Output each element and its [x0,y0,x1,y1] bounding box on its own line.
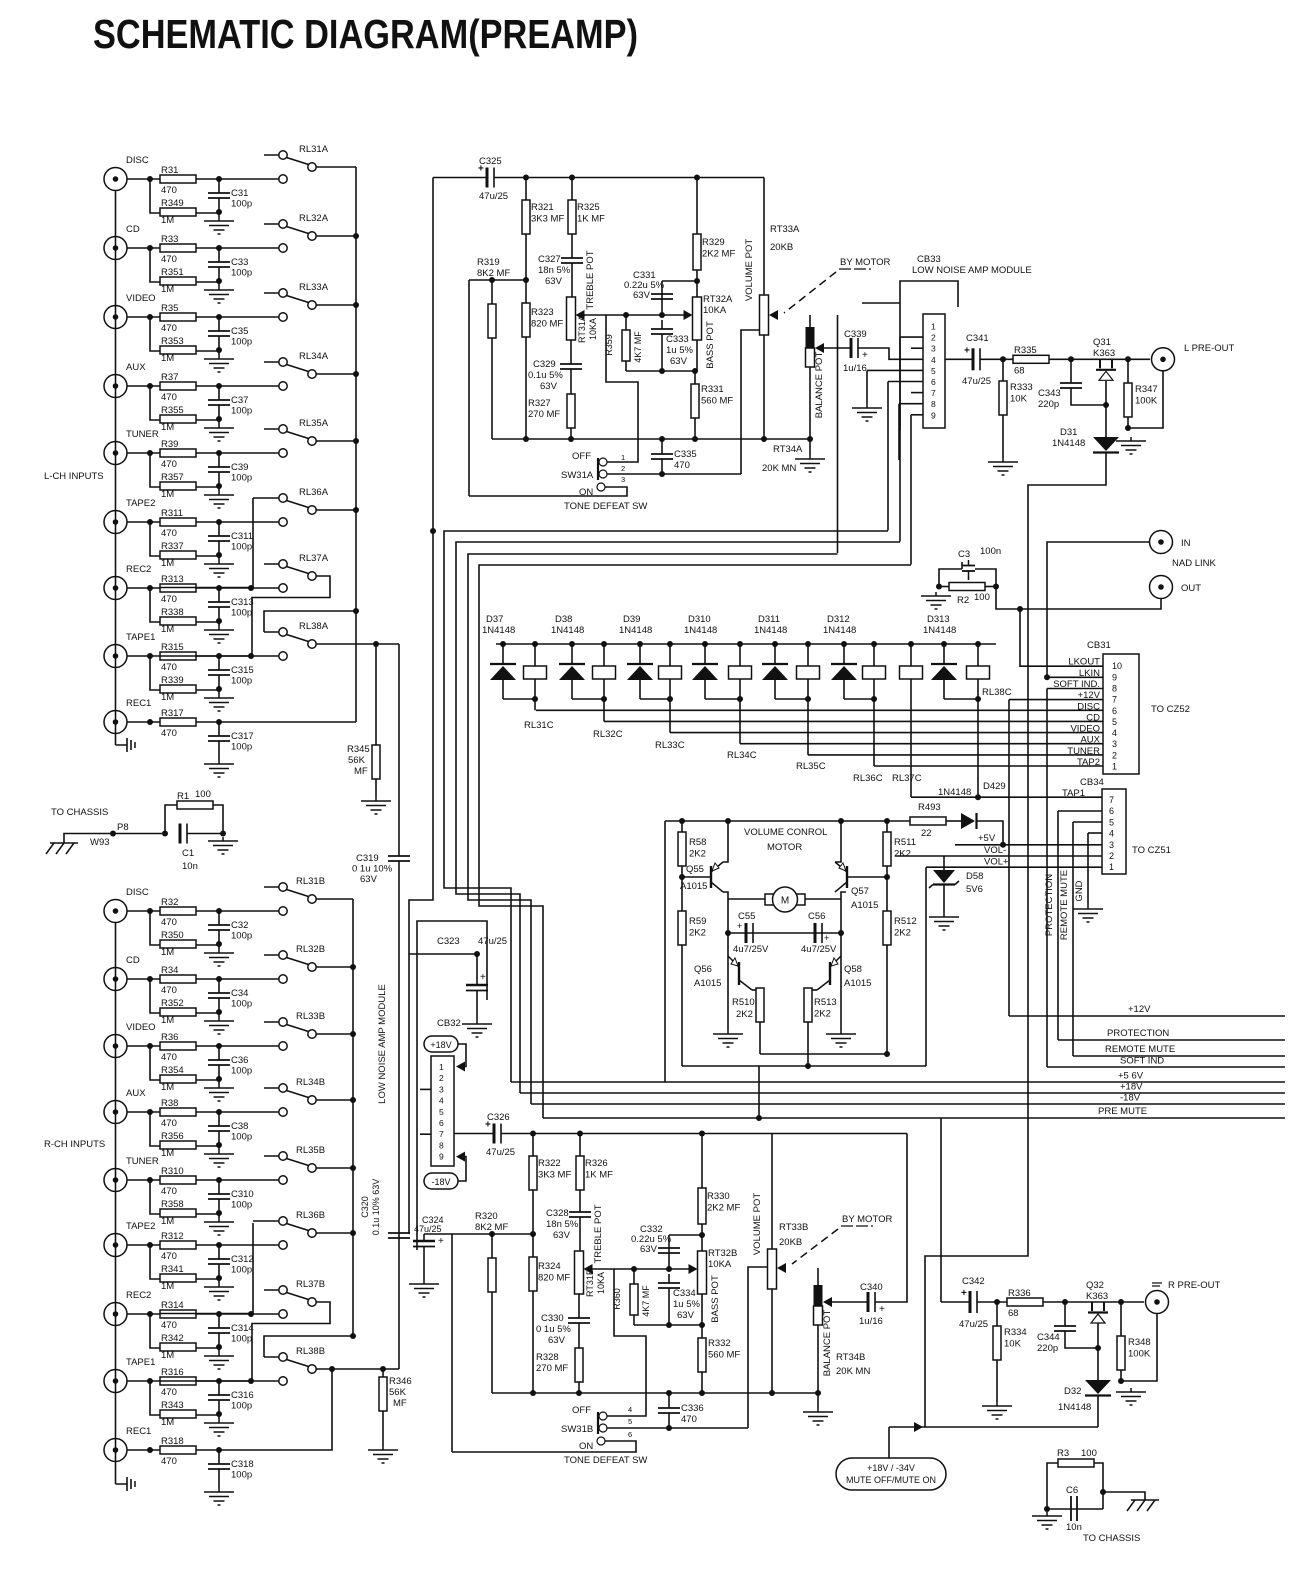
junction RL36B NC tee [248,1311,254,1317]
wire R321 to node [525,234,527,280]
wire R355 out [196,419,219,421]
junction R2 left [936,584,942,590]
open contact VIDEO relay contact [279,313,287,321]
bus +12V [1009,1015,1285,1017]
wire relay out y167 [316,166,356,168]
svg-text:RL35B: RL35B [296,1145,325,1156]
wire balance top [809,315,811,327]
wire Q56 collector [752,989,760,991]
junction DISC [147,176,153,182]
open contact TAPE2 relay contact [279,1241,287,1249]
wire C1 to gnd node [187,833,223,835]
wire C335 to SW row [661,459,663,474]
svg-text:R327: R327 [528,398,551,409]
svg-text:2: 2 [621,464,625,473]
junction C32 top [216,908,222,914]
wire coil2 top [603,644,605,666]
open contact TUNER relay contact [279,449,287,457]
wire C335 drop [661,439,663,454]
wire REMOTE MUTE down [1072,822,1074,1056]
svg-text:VOLUME CONROL: VOLUME CONROL [744,827,827,838]
resistor R350 [160,930,196,948]
wire R333 drop [1002,359,1004,381]
svg-text:R312: R312 [161,1231,184,1242]
svg-text:R313: R313 [161,574,184,585]
wire R37 out [196,385,279,387]
svg-text:68: 68 [1014,366,1025,377]
svg-text:C334: C334 [673,1288,696,1299]
wire R332 bottom [701,1372,703,1393]
wire R320 bottom [491,1292,493,1393]
wire R347 top [1127,359,1129,383]
capacitor C39 [208,467,230,472]
wire balance to C339 [824,347,851,349]
svg-text:68: 68 [1008,1308,1019,1319]
wire C323 to gnd [476,990,478,1020]
svg-text:2: 2 [439,1073,444,1083]
svg-text:47u/25: 47u/25 [962,376,991,387]
wire balance bottom [809,367,811,439]
resistor R511 [883,832,916,866]
capacitor C333 [651,329,673,334]
wire coil7 bottom [910,679,912,699]
junction C314 mid [216,1344,222,1350]
RCA jack TAPE1 input jack L [104,645,127,668]
wire RL38C drop [977,699,979,797]
wire relay B out y1034 [316,1033,353,1035]
svg-text:R335: R335 [1014,345,1037,356]
ground under C311 [204,560,234,577]
ground under C310 [204,1218,234,1235]
wire relay out y510 [316,509,356,511]
svg-text:TUNER: TUNER [126,429,159,440]
wire pair bottom x944 [944,698,978,700]
wire to C342 [941,1301,970,1303]
svg-text:5: 5 [1109,817,1114,827]
relay switch RL38A [264,621,329,648]
relay switch RL34B [264,1077,325,1104]
junction C313 top [216,585,222,591]
potentiometer RT31B [575,1251,593,1294]
svg-text:100p: 100p [231,268,252,279]
svg-text:RT33A: RT33A [770,224,800,235]
open contact AUX relay contact [279,1108,287,1116]
ground under R1/C1 [208,837,238,854]
junction REC2 [147,585,153,591]
wire balance B bottom [817,1325,819,1393]
svg-text:SW31B: SW31B [561,1424,593,1435]
wire VOL+ down [925,867,927,1066]
svg-text:20KB: 20KB [770,242,793,253]
svg-text:L-CH INPUTS: L-CH INPUTS [44,471,104,482]
junction rail B x533 [530,1390,536,1396]
wire TUNER jack to R [127,452,160,454]
svg-text:OFF: OFF [572,1405,591,1416]
svg-text:+12V: +12V [1128,1004,1151,1015]
junction CD [147,245,153,251]
junction C1 right [220,831,226,837]
wire SW31A mid [607,473,741,475]
wire R326 drop [579,1134,581,1157]
svg-text:100K: 100K [1135,396,1158,407]
wire R319 drop [491,280,493,304]
capacitor C331 [651,294,673,299]
svg-text:100p: 100p [231,1132,252,1143]
svg-text:4u7/25V: 4u7/25V [733,944,769,955]
open contact AUX relay contact [279,382,287,390]
svg-text:A1015: A1015 [844,978,871,989]
svg-text:100p: 100p [231,406,252,417]
svg-text:+: + [961,1288,967,1299]
junction REC1 R riser [329,1366,335,1372]
svg-text:Q57: Q57 [851,886,869,897]
wire to R352 [150,979,160,1013]
junction wiper R360 [631,1266,637,1272]
resistor R345 [372,745,380,779]
wire Q57 base [847,876,887,878]
wire Q58 collector [808,989,817,991]
svg-text:3K3 MF: 3K3 MF [531,214,564,225]
svg-text:RL38B: RL38B [296,1346,325,1357]
junction wiper R359 [623,312,629,318]
wire RL38A NC to bus [264,611,356,632]
capacitor C315 [208,670,230,675]
wire C333 down [661,320,663,329]
RCA jack REC2 input jack L [104,577,127,600]
wire to R339 [150,656,160,690]
resistor R58 [678,832,706,866]
junction node R348 [1118,1299,1124,1305]
svg-text:2: 2 [1109,851,1114,861]
svg-text:ON: ON [579,1441,593,1452]
wire C311 top [218,522,220,536]
resistor R319 [488,304,496,338]
wire CB33 pin6 [888,381,923,383]
capacitor C323 [466,972,488,991]
svg-text:R353: R353 [161,336,184,347]
wire C316 to ground [218,1400,220,1419]
dashed line by motor A [784,272,836,313]
svg-text:MOTOR: MOTOR [767,842,802,853]
svg-text:1M: 1M [161,353,174,364]
wire CB33 pin6 bus [887,382,889,531]
svg-text:TAPE1: TAPE1 [126,1357,155,1368]
wire to R338 [150,588,160,622]
wire C3 right [975,569,996,587]
svg-text:6: 6 [1112,706,1117,716]
svg-text:8: 8 [931,399,936,409]
svg-text:R356: R356 [161,1131,184,1142]
resistor R323 [522,303,563,337]
resistor R355 [160,405,196,423]
junction node R333 [1000,356,1006,362]
wire R323 bottom [525,337,527,439]
svg-text:RT33B: RT33B [779,1222,808,1233]
wire R339 out [196,689,219,691]
svg-text:470: 470 [681,1414,697,1425]
potentiometer RT33A [760,295,769,335]
svg-text:R510: R510 [732,997,755,1008]
svg-text:R493: R493 [918,802,941,813]
relay switch RL31A [264,144,329,171]
svg-text:100p: 100p [231,931,252,942]
wire R327 bottom [570,428,572,439]
svg-text:C330: C330 [541,1313,564,1324]
svg-text:A1015: A1015 [851,900,878,911]
svg-text:47u/25: 47u/25 [479,191,508,202]
mute oval [836,1458,946,1490]
wire R325 drop [571,178,573,201]
wire C36 top [218,1046,220,1060]
resistor R356 [160,1131,196,1149]
svg-text:AUX: AUX [126,1088,146,1099]
wire +12V pin [1009,699,1103,701]
junction Q57 base node [884,874,890,880]
junction C35 top [216,314,222,320]
wire R346 column [382,1369,384,1377]
junction C314 top [216,1311,222,1317]
connector CB31 [1103,654,1139,774]
junction +5V node [1000,842,1006,848]
svg-text:C312: C312 [231,1254,254,1265]
svg-text:C317: C317 [231,731,254,742]
junction C315 mid [216,686,222,692]
svg-text:470: 470 [161,1320,177,1331]
relay switch RL37B [264,1279,325,1306]
resistor R33 [160,234,196,265]
svg-text:VOLUME POT: VOLUME POT [744,239,755,301]
svg-text:R PRE-OUT: R PRE-OUT [1168,1280,1220,1291]
svg-text:R349: R349 [161,198,184,209]
ground under C38 [204,1150,234,1167]
junction rail A x526 [523,436,529,442]
wire R334 to gnd [996,1360,998,1402]
wire C6 bottom row [1047,1508,1103,1510]
svg-text:R31: R31 [161,165,178,176]
relay switch RL35A [264,418,329,445]
svg-text:R1: R1 [177,791,189,802]
wire R1 loop right [213,805,223,834]
svg-text:R341: R341 [161,1264,184,1275]
wire rail B ext [772,1133,907,1135]
svg-text:100p: 100p [231,1334,252,1345]
wire R333 to gnd [1002,415,1004,458]
svg-text:470: 470 [161,323,177,334]
svg-text:R33: R33 [161,234,178,245]
wire R2 left [939,586,949,588]
wire top rail A right [494,177,764,179]
wire TAP1 line [911,796,1102,798]
svg-text:470: 470 [161,1456,177,1467]
capacitor C1 [180,824,187,844]
wire Q57c to caprow [840,899,842,933]
svg-text:1u/16: 1u/16 [843,363,867,374]
wire C330 to R328 [578,1323,580,1348]
wire TAPE1 jack to R [127,655,160,657]
svg-text:C36: C36 [231,1055,248,1066]
capacitor C316 [208,1395,230,1400]
wire C342 to R336 [977,1301,1007,1303]
wire C344 to D32 node [1065,1331,1098,1348]
junction C334 bottom [666,1322,672,1328]
wire relay B out y1100 [316,1099,353,1101]
svg-text:R322: R322 [538,1158,561,1169]
capacitor C320 [388,1233,410,1238]
junction node B treble top [530,1231,536,1237]
svg-text:1M: 1M [161,947,174,958]
resistor R343 [160,1400,196,1418]
wire coil5 top [807,644,809,666]
ground under C324 [409,1280,439,1297]
resistor R342 [160,1333,196,1351]
svg-text:L PRE-OUT: L PRE-OUT [1184,343,1235,354]
svg-text:Q58: Q58 [844,964,862,975]
svg-text:7: 7 [1109,795,1114,805]
RCA jack R PRE-OUT [1146,1291,1169,1314]
svg-text:VOL-: VOL- [984,845,1006,856]
capacitor C3 [962,560,975,576]
wire to R350 [150,911,160,945]
RCA jack REC1 input jack R [104,1439,127,1462]
wire R334 drop [996,1302,998,1326]
junction node C343 [1068,356,1074,362]
svg-text:6: 6 [628,1430,632,1439]
wire RL37B out jog [160,1302,330,1381]
junction softind tee [1044,674,1050,680]
svg-text:6: 6 [439,1118,444,1128]
junction C313 mid [216,618,222,624]
wire R313 out [196,587,279,589]
resistor R493 [910,817,946,825]
wire R2 right [985,586,996,588]
resistor R324 [529,1257,570,1291]
svg-text:10n: 10n [1066,1522,1082,1533]
wire to R354 [150,1046,160,1080]
wire R360 drop [633,1269,635,1284]
wire C32 to ground [218,930,220,949]
svg-text:R323: R323 [531,307,554,318]
svg-text:VOLUME POT: VOLUME POT [752,1193,763,1255]
potentiometer RT34A balance slider [806,327,815,348]
svg-text:R512: R512 [894,916,917,927]
svg-text:470: 470 [161,1052,177,1063]
svg-text:2K2 MF: 2K2 MF [702,249,735,260]
wire REC1 jack to R [127,1449,160,1451]
wire C343 drop [1070,359,1072,383]
junction rail A x662 [659,436,665,442]
svg-text:2: 2 [931,333,936,343]
wire C315 to ground [218,675,220,694]
wire coil6 bottom [873,679,875,699]
wire pair bottom x844 [844,698,874,700]
svg-text:R336: R336 [1008,1288,1031,1299]
wire R39 out [196,452,279,454]
switch SW31A [597,458,607,491]
resistor R315 [160,642,196,673]
junction RL36A NC tee [248,585,254,591]
junction C32 mid [216,941,222,947]
svg-text:REC1: REC1 [126,698,151,709]
wire C33 to ground [218,267,220,286]
relay coil RL33C [659,666,682,679]
resistor R321 [522,200,564,234]
svg-text:C333: C333 [666,334,689,345]
transistor Q57 [835,862,847,892]
svg-text:M: M [781,896,789,907]
wire C318 top [218,1450,220,1464]
wire C315 top [218,656,220,670]
svg-text:DISC: DISC [126,887,149,898]
wire R511 drop [886,821,888,832]
wire PROTECTION down [1057,811,1059,1040]
svg-text:1M: 1M [161,489,174,500]
resistor R328 [575,1348,583,1382]
resistor R3 [1058,1459,1094,1467]
junction pair node x740 [737,696,743,702]
svg-text:1N4148: 1N4148 [923,625,956,636]
junction mb1 [884,1051,890,1057]
wire D39 cathode [639,644,641,664]
junction node R347 [1125,356,1131,362]
junction TAPE2 [147,1242,153,1248]
wire R34 out [196,978,279,980]
wire C328 to RT31B [579,1217,581,1251]
wire D311 cathode [774,644,776,664]
svg-text:D39: D39 [623,614,640,625]
junction pair node x604 [601,696,607,702]
capacitor C334 [658,1283,680,1288]
bus PROTECTION [1058,1039,1285,1041]
svg-text:270 MF: 270 MF [536,1363,568,1374]
wire R351 out [196,281,219,283]
svg-text:20K MN: 20K MN [762,463,796,474]
svg-text:100p: 100p [231,999,252,1010]
svg-text:1N4148: 1N4148 [482,625,515,636]
svg-text:22: 22 [921,828,932,839]
svg-text:R350: R350 [161,930,184,941]
wire RL38B out [316,1368,399,1370]
capacitor C344 [1054,1326,1076,1331]
connector CB32 pin box [431,1056,454,1166]
svg-text:R311: R311 [161,508,183,519]
svg-text:6: 6 [931,377,936,387]
zener diode D58 [929,870,959,888]
svg-text:18n 5%: 18n 5% [538,265,571,276]
wire R352 out [196,1012,219,1014]
wire C332 up [668,1248,670,1269]
svg-text:R331: R331 [701,384,724,395]
junction rail D312 [841,641,847,647]
resistor R316 [160,1367,196,1398]
wire SW31B mid [607,1427,748,1429]
svg-text:TAPE1: TAPE1 [126,632,155,643]
svg-text:+18V: +18V [1120,1082,1143,1093]
open contact DISC relay contact [279,175,287,183]
svg-text:D313: D313 [927,614,950,625]
svg-text:100p: 100p [231,199,252,210]
svg-text:C335: C335 [674,449,697,460]
svg-text:63V: 63V [548,1335,566,1346]
svg-text:BY MOTOR: BY MOTOR [842,1214,892,1225]
svg-text:100K: 100K [1128,1349,1151,1360]
junction C37 top [216,383,222,389]
resistor R341 [160,1264,196,1282]
svg-text:BASS POT: BASS POT [705,321,716,369]
svg-text:SW31A: SW31A [561,470,594,481]
svg-text:Q56: Q56 [694,964,712,975]
wire zener gnd [943,885,945,913]
resistor R359 [622,330,630,361]
